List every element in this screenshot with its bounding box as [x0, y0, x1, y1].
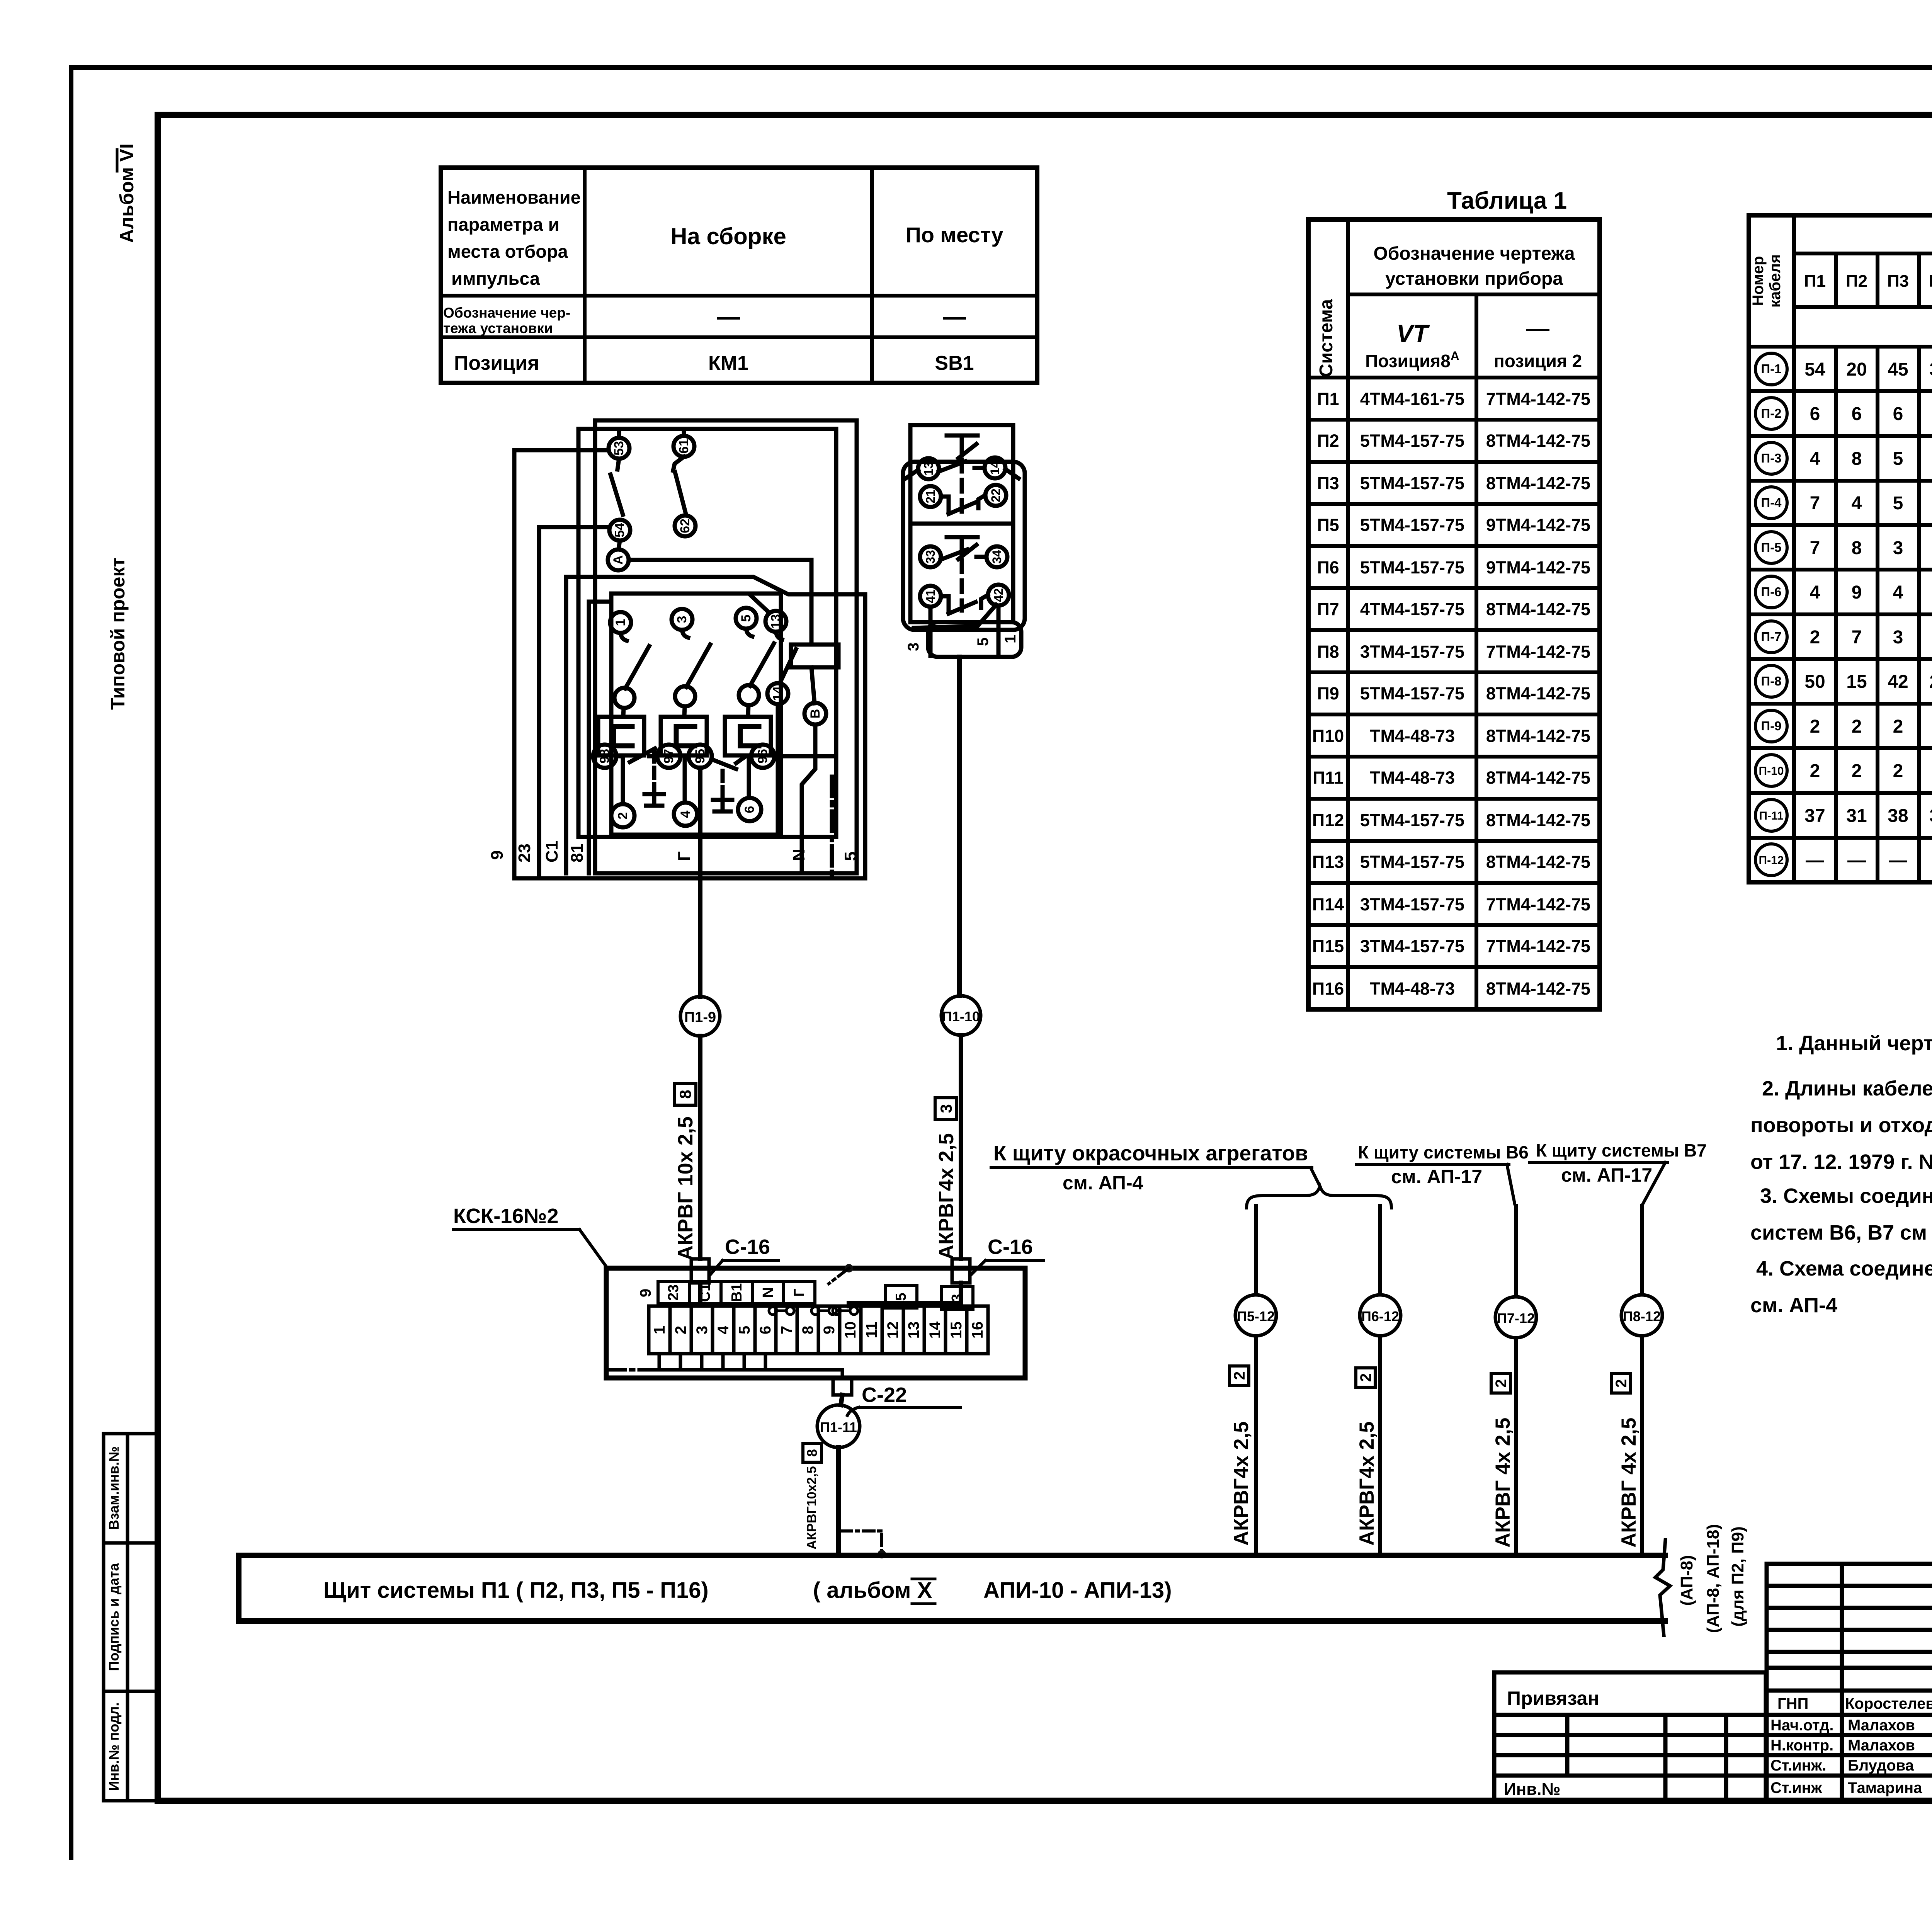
stubs under terminals — [649, 1354, 842, 1378]
svg-text:37: 37 — [1804, 806, 1825, 826]
svg-text:Номер: Номер — [1750, 256, 1767, 306]
terminal 53 — [609, 438, 629, 459]
terminal 62 — [675, 515, 696, 536]
svg-text:П12: П12 — [1312, 810, 1344, 830]
svg-text:22: 22 — [989, 488, 1003, 502]
svg-text:97: 97 — [662, 749, 676, 764]
svg-text:—: — — [1806, 850, 1824, 871]
svg-text:2: 2 — [1852, 761, 1862, 781]
terminal 33 — [920, 546, 941, 567]
wire inside box to term 10 — [849, 1283, 961, 1306]
svg-text:П2: П2 — [1317, 431, 1339, 451]
svg-text:—: — — [1889, 850, 1907, 871]
thermal element 1 — [598, 717, 644, 755]
trip switch 1 — [630, 748, 655, 762]
svg-text:АКРВГ 4х 2,5: АКРВГ 4х 2,5 — [1492, 1418, 1514, 1548]
dash-dot diagonal — [829, 1268, 849, 1284]
cable marker box 3 — [935, 1098, 957, 1119]
svg-text:1: 1 — [1002, 635, 1019, 643]
wire 9 loop — [514, 450, 865, 878]
svg-text:П9: П9 — [1317, 684, 1339, 703]
cable circle P1-11 — [817, 1405, 860, 1448]
NO contact 13-14 — [939, 461, 985, 471]
svg-text:4: 4 — [1810, 582, 1820, 603]
svg-text:Позиция8А: Позиция8А — [1365, 349, 1459, 371]
svg-text:П-10: П-10 — [1759, 765, 1784, 777]
svg-text:ТМ4-48-73: ТМ4-48-73 — [1370, 979, 1455, 998]
svg-text:Тамарина: Тамарина — [1848, 1779, 1922, 1796]
svg-text:2: 2 — [1893, 716, 1903, 737]
svg-text:П-2: П-2 — [1761, 406, 1781, 420]
SB1 contact unit 2 — [910, 524, 1013, 622]
svg-text:см. АП-4: см. АП-4 — [1750, 1294, 1837, 1317]
svg-text:9: 9 — [1852, 582, 1862, 603]
svg-text:12: 12 — [884, 1322, 901, 1339]
svg-text:П6: П6 — [1317, 558, 1339, 577]
svg-text:20: 20 — [1846, 359, 1867, 380]
cable marker box 8 — [674, 1084, 696, 1105]
svg-text:ТМ4-48-73: ТМ4-48-73 — [1370, 726, 1455, 746]
svg-text:7: 7 — [778, 1326, 795, 1334]
overline over VI — [116, 150, 119, 171]
svg-text:13: 13 — [922, 462, 935, 476]
svg-text:13: 13 — [905, 1322, 922, 1339]
thermal element 2 — [661, 717, 707, 755]
svg-text:42: 42 — [992, 588, 1005, 602]
svg-text:8ТМ4-142-75: 8ТМ4-142-75 — [1486, 810, 1590, 830]
svg-text:П-8: П-8 — [1761, 674, 1781, 688]
svg-text:Ст.инж.: Ст.инж. — [1770, 1757, 1826, 1774]
svg-text:Н.контр.: Н.контр. — [1770, 1737, 1833, 1754]
svg-text:АКРВГ10х2,5: АКРВГ10х2,5 — [804, 1466, 819, 1550]
svg-text:К щиту системы В6: К щиту системы В6 — [1358, 1142, 1529, 1162]
NC contact 41-42 — [941, 595, 988, 614]
terminal 61 — [673, 436, 694, 457]
svg-text:N: N — [760, 1287, 776, 1298]
connector C-16 left — [691, 1259, 709, 1283]
wire 95 to P1-9 — [698, 768, 702, 997]
svg-text:П11: П11 — [1313, 768, 1344, 788]
svg-text:1. Данный чертеж выполнен на д: 1. Данный чертеж выполнен на двух листах… — [1776, 1032, 1932, 1055]
svg-text:14: 14 — [927, 1321, 944, 1339]
svg-text:8: 8 — [804, 1449, 820, 1457]
svg-text:3: 3 — [694, 1326, 711, 1334]
svg-text:6: 6 — [742, 806, 757, 813]
svg-text:10: 10 — [842, 1322, 859, 1339]
break symbol — [1655, 1540, 1670, 1635]
svg-text:50: 50 — [1804, 672, 1825, 692]
svg-text:П15: П15 — [1312, 936, 1344, 956]
svg-text:4ТМ4-157-75: 4ТМ4-157-75 — [1360, 599, 1464, 619]
svg-text:7ТМ4-142-75: 7ТМ4-142-75 — [1486, 895, 1590, 914]
left margin stamp boxes — [104, 1434, 158, 1543]
svg-text:8: 8 — [676, 1090, 694, 1099]
svg-text:кабеля: кабеля — [1767, 254, 1784, 308]
svg-text:8: 8 — [1852, 449, 1862, 469]
svg-text:8ТМ4-142-75: 8ТМ4-142-75 — [1486, 768, 1590, 788]
svg-text:ТМ4-48-73: ТМ4-48-73 — [1370, 768, 1455, 788]
svg-text:позиция 2: позиция 2 — [1494, 351, 1582, 371]
wire from 41 down — [929, 607, 933, 656]
main contact branch 3 — [725, 608, 774, 821]
svg-text:С-16: С-16 — [988, 1235, 1033, 1259]
svg-text:Типовой проект: Типовой проект — [107, 558, 129, 710]
terminal 14 — [985, 458, 1005, 478]
svg-text:3: 3 — [949, 1294, 965, 1302]
svg-text:2: 2 — [1810, 716, 1820, 737]
svg-text:Наименование: Наименование — [447, 187, 581, 208]
svg-text:7ТМ4-142-75: 7ТМ4-142-75 — [1486, 936, 1590, 956]
svg-text:5: 5 — [1893, 449, 1903, 469]
svg-text:5: 5 — [736, 1326, 753, 1334]
svg-text:На сборке: На сборке — [670, 223, 786, 249]
svg-text:П-12: П-12 — [1759, 854, 1784, 867]
svg-text:повороты и отходы согласно: повороты и отходы согласно письма Госстр… — [1750, 1114, 1932, 1137]
svg-text:П-3: П-3 — [1761, 451, 1781, 465]
wire to terminal 13 — [750, 595, 769, 612]
svg-text:8ТМ4-142-75: 8ТМ4-142-75 — [1486, 473, 1590, 493]
svg-text:4: 4 — [1852, 493, 1862, 514]
KM1 cable core labels — [488, 841, 860, 862]
svg-text:45: 45 — [1888, 359, 1908, 380]
terminal A — [619, 541, 620, 549]
svg-text:6: 6 — [1852, 404, 1862, 424]
terminal 54 — [609, 520, 630, 541]
cable run P1-10 — [849, 657, 1043, 1306]
svg-text:3ТМ4-157-75: 3ТМ4-157-75 — [1360, 936, 1464, 956]
drop cable P8-12 — [1611, 1206, 1662, 1555]
right loop wire from 96 — [774, 754, 836, 759]
svg-text:1: 1 — [651, 1326, 668, 1334]
svg-text:Подпись и дата: Подпись и дата — [106, 1563, 122, 1671]
svg-text:14: 14 — [988, 461, 1002, 475]
wire P1-11 to shield bus — [836, 1448, 841, 1555]
svg-text:П1: П1 — [1317, 389, 1339, 409]
svg-text:П7: П7 — [1317, 599, 1339, 619]
svg-text:9: 9 — [821, 1326, 838, 1334]
svg-text:П8-12: П8-12 — [1623, 1308, 1661, 1324]
collector wire — [649, 1370, 842, 1378]
svg-text:см. АП-17: см. АП-17 — [1391, 1166, 1482, 1187]
svg-text:8ТМ4-142-75: 8ТМ4-142-75 — [1486, 852, 1590, 872]
svg-text:3: 3 — [1893, 627, 1903, 648]
auxiliary contact 13-14 — [765, 611, 796, 835]
svg-text:3: 3 — [675, 616, 689, 623]
svg-text:АКРВГ4х 2,5: АКРВГ4х 2,5 — [1230, 1421, 1253, 1546]
svg-text:95: 95 — [693, 749, 707, 764]
terminal B — [804, 703, 826, 725]
wire 23 loop — [539, 527, 609, 878]
svg-text:23: 23 — [665, 1284, 682, 1301]
cable marker box 8 — [803, 1444, 821, 1462]
terminal 2 — [611, 804, 634, 827]
svg-text:Коростелев: Коростелев — [1845, 1695, 1932, 1712]
svg-text:(для П2, П9): (для П2, П9) — [1728, 1526, 1747, 1627]
contactor KM1 — [514, 420, 865, 878]
KSK-16 label — [453, 1204, 558, 1228]
svg-text:8ТМ4-142-75: 8ТМ4-142-75 — [1486, 726, 1590, 746]
SB1 cable gland — [928, 622, 1021, 657]
svg-text:П5: П5 — [1317, 515, 1339, 535]
svg-text:П1-9: П1-9 — [684, 1009, 716, 1026]
svg-text:(АП-8, АП-18): (АП-8, АП-18) — [1704, 1524, 1723, 1633]
svg-text:параметра и: параметра и — [447, 214, 559, 235]
svg-text:АКРВГ 4х 2,5: АКРВГ 4х 2,5 — [1617, 1418, 1640, 1548]
svg-text:5: 5 — [841, 852, 860, 861]
connector C-22 — [833, 1378, 961, 1415]
svg-text:4. Схема соединений внешних пр: 4. Схема соединений внешних проводок окр… — [1756, 1257, 1932, 1280]
terminal box KSK-16 — [453, 1204, 1025, 1378]
svg-text:П-5: П-5 — [1761, 540, 1781, 555]
svg-text:(АП-8): (АП-8) — [1677, 1555, 1696, 1606]
svg-text:Таблица 1: Таблица 1 — [1447, 187, 1567, 214]
wire 42 side loop — [914, 605, 996, 628]
svg-text:П2: П2 — [1846, 272, 1867, 291]
SB1 core labels — [905, 635, 1019, 651]
svg-text:Малахов: Малахов — [1848, 1717, 1915, 1734]
svg-text:54: 54 — [1804, 359, 1825, 380]
destination notes above drops — [991, 1140, 1707, 1208]
svg-text:3. Схемы соединений внешних: 3. Схемы соединений внешних проводок выт… — [1760, 1184, 1932, 1208]
svg-text:5ТМ4-157-75: 5ТМ4-157-75 — [1360, 515, 1464, 535]
svg-text:62: 62 — [678, 519, 692, 533]
svg-text:П-7: П-7 — [1761, 629, 1781, 644]
svg-text:ГНП: ГНП — [1777, 1695, 1808, 1712]
svg-text:53: 53 — [612, 441, 626, 456]
svg-text:П1-10: П1-10 — [942, 1009, 980, 1024]
svg-text:23: 23 — [515, 844, 534, 862]
svg-text:5: 5 — [893, 1293, 909, 1301]
svg-text:5ТМ4-157-75: 5ТМ4-157-75 — [1360, 810, 1464, 830]
svg-text:П3: П3 — [1317, 473, 1339, 493]
svg-text:систем В6, В7 см АП-17, В2.: систем В6, В7 см АП-17, В2. В8 - см. АП-… — [1750, 1221, 1932, 1244]
wire A to coil — [629, 560, 811, 645]
svg-text:4ТМ4-161-75: 4ТМ4-161-75 — [1360, 389, 1464, 409]
svg-text:П3: П3 — [1887, 272, 1909, 291]
svg-text:2: 2 — [1893, 761, 1903, 781]
svg-text:5ТМ4-157-75: 5ТМ4-157-75 — [1360, 558, 1464, 577]
svg-text:П5: П5 — [1929, 272, 1932, 291]
actuator 1 — [947, 435, 978, 458]
svg-text:34: 34 — [990, 550, 1004, 564]
svg-text:41: 41 — [923, 589, 937, 603]
svg-text:По месту: По месту — [906, 223, 1003, 247]
svg-text:14: 14 — [770, 686, 785, 701]
sheet refs rotated — [1677, 1524, 1747, 1633]
actuator 2 — [947, 537, 978, 559]
svg-text:1: 1 — [613, 619, 628, 626]
svg-text:N: N — [789, 849, 808, 861]
svg-text:—: — — [1526, 315, 1549, 341]
brace over P5/P6 — [1247, 1186, 1391, 1208]
overload terminal 96 — [736, 745, 774, 768]
svg-text:8: 8 — [799, 1326, 816, 1334]
terminal 13 — [918, 458, 939, 479]
svg-text:К щиту окрасочных агрегатов: К щиту окрасочных агрегатов — [993, 1141, 1308, 1165]
svg-text:П10: П10 — [1312, 726, 1344, 746]
svg-text:от 17. 12. 1979 г. № 89-Д.: от 17. 12. 1979 г. № 89-Д. — [1750, 1150, 1932, 1174]
svg-text:КМ1: КМ1 — [708, 352, 748, 374]
svg-text:3ТМ4-157-75: 3ТМ4-157-75 — [1360, 642, 1464, 662]
notes — [1750, 1032, 1932, 1317]
svg-text:2: 2 — [1613, 1379, 1630, 1388]
NC contact 21-22 — [941, 495, 985, 514]
svg-text:Обозначение чер-: Обозначение чер- — [443, 305, 570, 321]
trip switch 2 — [712, 759, 736, 769]
cable label AKRVG10x2,5 — [804, 1466, 819, 1550]
svg-text:П-9: П-9 — [1761, 719, 1781, 733]
svg-text:VТ: VТ — [1396, 320, 1430, 347]
signature table — [1767, 1564, 1932, 1801]
svg-text:см. АП-4: см. АП-4 — [1063, 1172, 1143, 1194]
svg-text:А: А — [611, 555, 626, 565]
wire 13 to housing — [906, 470, 918, 478]
svg-text:2: 2 — [1810, 627, 1820, 648]
wire SB1 to P1-10 — [957, 657, 962, 996]
svg-text:21: 21 — [923, 490, 937, 503]
binding table — [1494, 1672, 1766, 1801]
shield cabinet bus bar — [239, 1524, 1747, 1635]
svg-text:5: 5 — [975, 638, 992, 646]
svg-text:П16: П16 — [1312, 979, 1344, 998]
wire C1 — [566, 577, 865, 878]
svg-text:П-1: П-1 — [1761, 362, 1781, 376]
svg-text:П6-12: П6-12 — [1361, 1308, 1399, 1324]
svg-text:П7-12: П7-12 — [1497, 1310, 1535, 1326]
svg-text:Г: Г — [791, 1288, 808, 1297]
parameter table top-left — [441, 168, 1037, 383]
svg-text:7: 7 — [1810, 538, 1820, 558]
terminal box body — [606, 1268, 1025, 1378]
svg-text:7: 7 — [1810, 493, 1820, 514]
svg-text:5ТМ4-157-75: 5ТМ4-157-75 — [1360, 431, 1464, 451]
svg-text:13: 13 — [769, 614, 783, 629]
svg-text:—: — — [717, 304, 740, 330]
svg-text:3: 3 — [937, 1104, 955, 1113]
svg-text:Альбом VI: Альбом VI — [116, 143, 138, 243]
svg-text:Малахов: Малахов — [1848, 1737, 1915, 1754]
svg-text:Г: Г — [675, 851, 694, 861]
wire inside box — [698, 1283, 702, 1305]
svg-text:Позиция: Позиция — [454, 352, 539, 374]
drop cable P6-12 — [1355, 1206, 1401, 1555]
svg-text:3ТМ4-157-75: 3ТМ4-157-75 — [1360, 895, 1464, 914]
svg-text:П-4: П-4 — [1761, 495, 1782, 510]
svg-text:С-22: С-22 — [862, 1383, 907, 1407]
svg-text:2. Длины кабелей даны с уч: 2. Длины кабелей даны с учетом 6% надбав… — [1762, 1077, 1932, 1100]
KM1 housing inner rect — [578, 429, 836, 837]
terminal 41 — [920, 586, 941, 607]
label C-16 right — [988, 1235, 1033, 1259]
overload terminal 97 — [649, 745, 680, 768]
push button SB1 — [903, 425, 1025, 657]
thermal element 3 — [725, 717, 771, 755]
svg-text:11: 11 — [863, 1322, 880, 1338]
svg-text:Взам.инв.№: Взам.инв.№ — [106, 1446, 122, 1530]
NO contact 33-34 — [941, 549, 986, 560]
wire coil to B — [811, 667, 815, 703]
terminal 4 — [674, 803, 697, 826]
terminal 6 — [738, 798, 761, 821]
svg-text:7ТМ4-142-75: 7ТМ4-142-75 — [1486, 389, 1590, 409]
svg-text:В: В — [808, 709, 823, 719]
svg-text:Система: Система — [1316, 299, 1337, 377]
svg-text:С-16: С-16 — [725, 1235, 770, 1259]
svg-text:SB1: SB1 — [935, 352, 974, 374]
wire 81 — [589, 602, 611, 873]
terminal 21 — [920, 486, 941, 507]
svg-text:29: 29 — [1929, 672, 1932, 692]
svg-text:С1: С1 — [697, 1283, 713, 1302]
svg-text:места отбора: места отбора — [447, 241, 568, 262]
svg-text:С1: С1 — [543, 841, 561, 862]
svg-text:—: — — [943, 304, 966, 330]
svg-text:5ТМ4-157-75: 5ТМ4-157-75 — [1360, 852, 1464, 872]
svg-text:( альбом Х: ( альбом Х — [813, 1578, 932, 1603]
overload terminal 98 — [593, 745, 664, 806]
cable circle P1-9 — [680, 997, 720, 1036]
svg-text:42: 42 — [1888, 672, 1908, 692]
svg-text:15: 15 — [948, 1322, 965, 1339]
svg-text:Привязан: Привязан — [1507, 1687, 1599, 1709]
contact module rect — [611, 594, 781, 835]
connector C-16 right — [952, 1259, 970, 1283]
drop cable P5-12 — [1230, 1206, 1276, 1555]
KM1 housing outer rect — [595, 420, 857, 873]
dash-dot earth inside box — [608, 1368, 653, 1372]
svg-text:3: 3 — [905, 643, 922, 651]
main contact branch 2 — [661, 609, 710, 826]
svg-text:5: 5 — [739, 615, 753, 622]
drop cable P7-12 — [1491, 1206, 1536, 1555]
svg-text:2: 2 — [616, 812, 630, 820]
svg-text:5: 5 — [1893, 493, 1903, 514]
svg-text:6: 6 — [1810, 404, 1820, 424]
svg-text:9ТМ4-142-75: 9ТМ4-142-75 — [1486, 558, 1590, 577]
svg-text:8: 8 — [1852, 538, 1862, 558]
terminal strip 1..16 — [649, 1306, 988, 1354]
svg-text:7ТМ4-142-75: 7ТМ4-142-75 — [1486, 642, 1590, 662]
label C-16 left — [725, 1235, 770, 1259]
contact blade 53-54 — [611, 459, 623, 515]
svg-text:П-6: П-6 — [1761, 585, 1781, 599]
svg-text:15: 15 — [1846, 672, 1867, 692]
svg-text:8ТМ4-142-75: 8ТМ4-142-75 — [1486, 431, 1590, 451]
svg-text:38: 38 — [1888, 806, 1908, 826]
svg-text:61: 61 — [677, 439, 691, 454]
jumper circles on terminals 6-10 — [769, 1307, 858, 1315]
cable label AKRVG 10x2,5 — [674, 1116, 697, 1260]
cable label AKRVG4x2,5 — [935, 1133, 958, 1260]
main contact branch 1 — [598, 612, 649, 827]
svg-text:2: 2 — [1493, 1379, 1510, 1388]
svg-text:9ТМ4-142-75: 9ТМ4-142-75 — [1486, 515, 1590, 535]
terminal 22 — [985, 485, 1006, 506]
svg-text:4: 4 — [1893, 582, 1903, 603]
svg-text:5ТМ4-157-75: 5ТМ4-157-75 — [1360, 684, 1464, 703]
cable circle P1-10 — [941, 996, 981, 1035]
svg-text:—: — — [1847, 850, 1866, 871]
svg-text:4: 4 — [1810, 449, 1820, 469]
svg-text:АКРВГ4х 2,5: АКРВГ4х 2,5 — [935, 1133, 958, 1260]
svg-text:КСК-16№2: КСК-16№2 — [453, 1204, 558, 1228]
svg-text:П14: П14 — [1312, 895, 1344, 914]
svg-text:К щиту системы В7: К щиту системы В7 — [1536, 1140, 1707, 1160]
wire P1-9 to box — [698, 1036, 702, 1259]
svg-text:6: 6 — [1893, 404, 1903, 424]
svg-text:9: 9 — [488, 850, 507, 860]
svg-text:31: 31 — [1846, 806, 1867, 826]
